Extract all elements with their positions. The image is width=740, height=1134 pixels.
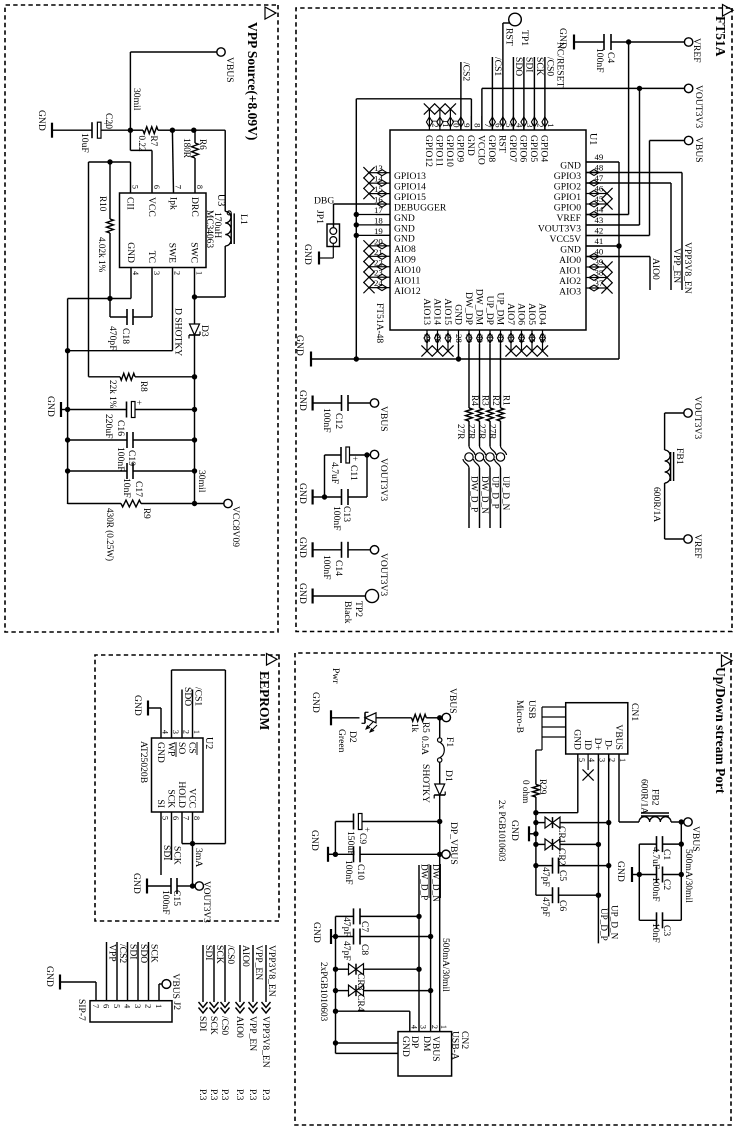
U2 pin 8 VCC <box>186 788 201 820</box>
U1 pin 18 GND (bottom) <box>374 215 415 234</box>
svg-text:GPIO2: GPIO2 <box>554 181 581 192</box>
U3 pin 8 DRC <box>189 185 204 217</box>
svg-text:GPIO1: GPIO1 <box>554 192 581 203</box>
svg-text:DW_D_P: DW_D_P <box>419 864 429 900</box>
svg-text:P.3: P.3 <box>247 1089 258 1101</box>
svg-text:27R: 27R <box>456 424 466 440</box>
U1 pin 20 AIO8 (bottom) <box>363 236 416 255</box>
svg-text:100nF: 100nF <box>331 506 342 531</box>
svg-text:GND: GND <box>297 483 308 504</box>
svg-text:SCK: SCK <box>165 789 176 808</box>
U1 pin 4 GPIO7 (left) <box>507 116 524 162</box>
svg-text:27R: 27R <box>467 424 477 440</box>
U1 pin 40 AIO0 (top) <box>559 247 604 266</box>
U1 pin 43 VOUT3V3 (top) <box>538 215 604 234</box>
U2 pin 2 SO <box>176 730 191 754</box>
section title FT51A <box>723 5 734 17</box>
svg-text:AIO10: AIO10 <box>394 265 421 276</box>
svg-text:17: 17 <box>374 205 383 215</box>
svg-text:VBUS: VBUS <box>170 973 181 999</box>
svg-text:R5: R5 <box>421 722 431 733</box>
U1 pin 15 GPIO15 (bottom) <box>363 184 426 203</box>
wire VCC8V09 output rail <box>192 335 207 506</box>
svg-text:3mA: 3mA <box>193 848 204 867</box>
U1 pin 7 VCCIO (left) <box>476 116 493 165</box>
wire U2 pin3 WP pullup loop <box>172 670 226 844</box>
diode D1 SHOTKY <box>420 764 454 824</box>
capacitor C15 100nF <box>147 878 193 915</box>
svg-text:TC: TC <box>146 251 157 263</box>
svg-text:VCC8V09: VCC8V09 <box>230 506 241 547</box>
capacitor C2 100nF <box>637 867 682 902</box>
section frame Up/Down stream Port <box>295 653 731 1125</box>
net DW_D_N wire to CN2 pin2 <box>428 864 441 1032</box>
svg-text:C11: C11 <box>348 465 359 481</box>
ground for C13 <box>297 483 325 505</box>
svg-text:GND: GND <box>297 583 308 604</box>
U1 pin 31 UP_DP (right) <box>484 296 496 344</box>
svg-text:P.3: P.3 <box>219 1089 230 1101</box>
capacitor C12 100nF <box>313 395 348 433</box>
svg-text:430R (0.25W): 430R (0.25W) <box>105 508 115 561</box>
ferrite bead FB2 600R/1A on VBUS <box>619 754 681 822</box>
U1 pin 19 GND (bottom) <box>374 226 415 245</box>
capacitor C9 150uF polarized <box>335 814 439 856</box>
crossover symbol on UP_D_N <box>495 446 512 528</box>
svg-text:AIO0: AIO0 <box>650 258 661 280</box>
svg-text:GPIO9: GPIO9 <box>455 135 466 162</box>
node SWC junction U3 pin1 <box>192 268 197 325</box>
svg-text:DP_VBUS: DP_VBUS <box>448 822 459 865</box>
svg-text:AIO14: AIO14 <box>431 298 442 325</box>
U3 pin 7 Ipk <box>167 185 182 210</box>
svg-text:SHOTKY: SHOTKY <box>420 764 431 803</box>
svg-text:USB: USB <box>526 700 537 719</box>
svg-text:+: + <box>101 121 111 126</box>
svg-text:GND: GND <box>44 966 55 987</box>
U1 pin 33 AIO7 (right) <box>505 303 517 356</box>
svg-text:7: 7 <box>483 123 493 128</box>
port VBUS to U1 VCC5V pin42 <box>586 136 704 235</box>
svg-text:AIO2: AIO2 <box>559 276 581 287</box>
resistor R7 0.22 current sense <box>130 127 172 152</box>
svg-text:2: 2 <box>173 271 182 275</box>
U1 pin 25 AIO13 (right) <box>421 298 433 356</box>
svg-text:100nF: 100nF <box>115 447 126 472</box>
port VBUS input upstream <box>437 688 458 722</box>
ground for TP2 <box>297 583 313 604</box>
svg-text:U1: U1 <box>587 133 598 145</box>
wire U3 pin6 VCC to VBUS node <box>130 130 152 193</box>
net /CS2 wire to U1 pin9 <box>460 62 471 130</box>
svg-text:4.02k 1%: 4.02k 1% <box>97 237 107 273</box>
svg-text:22k 1%: 22k 1% <box>108 380 118 409</box>
svg-text:VPP_EN: VPP_EN <box>253 945 264 980</box>
svg-text:C12: C12 <box>333 413 344 429</box>
svg-text:GND: GND <box>45 396 56 417</box>
svg-text:C4: C4 <box>605 52 616 63</box>
svg-text:100nF: 100nF <box>343 860 354 885</box>
capacitor C11 4.7uF polarized <box>325 447 368 484</box>
svg-text:GPIO5: GPIO5 <box>528 135 539 162</box>
U1 pin 34 AIO6 (right) <box>515 303 527 356</box>
svg-text:R3: R3 <box>481 395 491 406</box>
U1 pin 21 AIO9 (bottom) <box>363 247 416 266</box>
off-page connector SDI to P.3 <box>197 945 214 1101</box>
U2 pin 5 SI <box>155 799 170 820</box>
svg-text:VBUS: VBUS <box>447 688 458 714</box>
svg-text:CR4: CR4 <box>355 994 366 1012</box>
svg-text:F1: F1 <box>444 737 455 747</box>
U1 pin 23 AIO11 (bottom) <box>363 268 420 287</box>
resistor R2 27R on UP_D_P <box>477 344 501 446</box>
svg-text:RST: RST <box>497 135 508 153</box>
port VBUS at C12 <box>348 399 389 432</box>
U1 pin 17 GND (bottom) <box>374 205 415 224</box>
svg-text:GND: GND <box>509 820 520 841</box>
svg-text:RST: RST <box>504 28 515 46</box>
svg-text:C16: C16 <box>115 420 126 436</box>
off-page connector SCK to P.3 <box>208 945 225 1101</box>
svg-text:AIO4: AIO4 <box>536 303 547 325</box>
svg-text:DM: DM <box>421 1036 432 1052</box>
off-page connector AIO0 to P.3 <box>234 945 251 1101</box>
ground symbol for U1 GND rail <box>294 335 311 367</box>
svg-text:AIO13: AIO13 <box>421 298 432 325</box>
svg-text:GPIO11: GPIO11 <box>434 135 445 167</box>
svg-text:100nF: 100nF <box>160 890 171 915</box>
svg-text:R29: R29 <box>538 779 548 795</box>
svg-text:P.3: P.3 <box>197 1089 208 1101</box>
svg-text:GPIO13: GPIO13 <box>394 171 426 182</box>
resistor R3 27R on DW_D_N <box>467 344 491 446</box>
svg-text:VPP3V8_EN: VPP3V8_EN <box>260 1016 271 1068</box>
ground symbol VPP rail <box>45 396 68 417</box>
svg-text:5: 5 <box>131 185 140 189</box>
svg-text:6: 6 <box>152 185 161 189</box>
svg-text:VOUT3V3: VOUT3V3 <box>693 85 704 128</box>
wire VBUS rail top to L1 <box>194 130 225 211</box>
svg-text:3: 3 <box>171 730 180 734</box>
svg-text:GPIO3: GPIO3 <box>554 171 581 182</box>
U1 pin 1 GPIO4 (left) <box>539 116 556 162</box>
svg-text:2: 2 <box>144 1004 154 1008</box>
svg-text:100nF: 100nF <box>321 555 332 580</box>
section title Up/Down stream Port <box>722 655 733 667</box>
svg-text:AIO0: AIO0 <box>234 1016 245 1038</box>
U1 pin 27 AIO15 (right) <box>442 298 454 356</box>
svg-text:VPP: VPP <box>106 944 117 962</box>
CN1 pin 2 D- <box>603 740 617 762</box>
svg-text:C8: C8 <box>359 944 370 955</box>
svg-text:TP1: TP1 <box>519 30 530 46</box>
U1 pin 28 GND (right) <box>452 304 464 344</box>
svg-text:220uF: 220uF <box>103 414 114 439</box>
U1 pin 8 GND (left) <box>465 116 482 156</box>
CN2 pin 2 DM <box>421 1025 439 1052</box>
svg-text:R6: R6 <box>198 139 208 150</box>
svg-text:DEBUGGER: DEBUGGER <box>394 202 447 213</box>
svg-text:AIO0: AIO0 <box>240 945 251 967</box>
svg-text:R10: R10 <box>98 196 108 212</box>
svg-text:41: 41 <box>595 236 604 246</box>
LED D2 Green Pwr <box>330 668 377 753</box>
svg-text:DW_D_N: DW_D_N <box>431 864 441 902</box>
svg-text:VOUT3V3: VOUT3V3 <box>378 553 389 596</box>
U1 pin 6 GPIO8 (left) <box>486 116 503 162</box>
svg-text:GND: GND <box>155 742 166 763</box>
resistor R1 27R on UP_D_N <box>488 344 512 446</box>
section title EEPROM <box>267 654 278 666</box>
svg-text:NC/RESET: NC/RESET <box>555 42 566 87</box>
wire feedback to U3 pin5 CII <box>89 162 131 377</box>
svg-text:GND: GND <box>297 537 308 558</box>
net DBG wire from U1 pin16 DEBUGGER <box>314 196 376 228</box>
wire CN1 shield stubs <box>536 707 566 750</box>
svg-text:DW_DM: DW_DM <box>473 289 484 326</box>
svg-text:19: 19 <box>374 226 383 236</box>
svg-text:47pF: 47pF <box>341 917 352 937</box>
port VOUT3V3 for EEPROM <box>193 881 212 923</box>
svg-text:SDO: SDO <box>513 57 524 76</box>
CN1 pin 5 GND <box>572 729 586 762</box>
svg-text:C17: C17 <box>133 481 144 497</box>
svg-text:P.3: P.3 <box>260 1089 271 1101</box>
svg-text:UP_D_P: UP_D_P <box>491 476 501 509</box>
svg-text:3: 3 <box>419 1025 428 1029</box>
U1 pin 26 AIO14 (right) <box>431 298 443 356</box>
svg-text:2: 2 <box>430 1025 439 1029</box>
svg-text:VBUS: VBUS <box>690 826 701 852</box>
U1 pin 14 GPIO14 (bottom) <box>363 174 426 193</box>
svg-text:4: 4 <box>131 271 140 275</box>
net VPP_EN wire from U1 pin47 <box>586 183 682 290</box>
svg-text:GND: GND <box>560 160 581 171</box>
resistor R9 430R 0.25W load <box>68 500 195 561</box>
U1 pin 35 AIO5 (right) <box>526 303 538 356</box>
ground for C9 C10 <box>309 830 335 862</box>
fuse F1 0.5A <box>419 718 455 784</box>
svg-text:GPIO10: GPIO10 <box>444 135 455 167</box>
net SCK wire to U2 pin6 <box>172 812 183 865</box>
svg-text:18: 18 <box>374 215 383 225</box>
svg-text:GND: GND <box>294 335 305 356</box>
svg-text:VBUS: VBUS <box>224 57 235 83</box>
svg-text:/CS1: /CS1 <box>492 57 503 76</box>
crossover symbol on UP_D_P <box>484 446 501 528</box>
connector CN1 USB Micro-B body <box>566 703 640 754</box>
svg-text:C2: C2 <box>661 879 672 890</box>
net SDO wire to U1 pin4 <box>513 57 524 130</box>
svg-text:D1: D1 <box>443 770 454 782</box>
svg-text:AIO3: AIO3 <box>559 286 581 297</box>
crossover symbol on DW_D_N <box>474 446 491 528</box>
CN2 pin 1 VBUS <box>430 1025 448 1062</box>
port VCC8V09 <box>195 499 242 547</box>
svg-text:2x PGB1010603: 2x PGB1010603 <box>497 800 507 862</box>
ground for JP1 <box>302 244 333 265</box>
wire CN2 pin4 GND <box>336 1011 410 1031</box>
svg-text:SDO: SDO <box>138 944 149 963</box>
svg-text:2xPGB1010603: 2xPGB1010603 <box>319 962 329 1022</box>
port VBUS downstream <box>679 818 701 852</box>
resistor R29 0 ohm <box>521 750 548 813</box>
svg-text:VCC: VCC <box>146 197 157 217</box>
svg-text:Pwr: Pwr <box>330 668 341 684</box>
svg-text:43: 43 <box>595 215 604 225</box>
ground on shield rail <box>509 820 536 841</box>
svg-text:Green: Green <box>336 729 347 753</box>
section frame VPP Source <box>5 5 278 632</box>
svg-text:GND: GND <box>452 304 463 325</box>
IC U1 FT51A-48 body <box>390 130 586 330</box>
svg-text:GND: GND <box>125 242 136 263</box>
capacitor C14 100nF <box>313 542 348 580</box>
U1 pin 29 DW_DP (right) <box>463 292 475 344</box>
capacitor C6 47pF <box>536 887 599 917</box>
U1 pin 3 GPIO6 (left) <box>518 116 535 162</box>
off-page connector VPP_EN to P.3 <box>247 945 264 1101</box>
U1 pin 42 VCC5V (top) <box>550 226 604 245</box>
CN1 pin 3 D+ <box>592 738 606 762</box>
wire CN1 pin5 GND to shield rail <box>533 754 578 815</box>
svg-text:P.3: P.3 <box>208 1089 219 1101</box>
svg-text:AIO15: AIO15 <box>442 298 453 325</box>
ground for U2 pin4 <box>132 695 161 738</box>
port VOUT3V3 at C14 <box>348 546 389 597</box>
CN1 pin 4 ID <box>582 740 596 762</box>
wire U1 pin8 GND and pins 17-19 GND rail <box>354 99 472 362</box>
wire U3 pin4 GND drop <box>68 268 131 302</box>
wire U3 pin2 SWE to ground rail <box>68 268 173 351</box>
wire L1 to SWC node <box>195 246 226 297</box>
U1 pin 11 GPIO11 (left) <box>434 103 451 166</box>
svg-text:SDI: SDI <box>197 1016 208 1031</box>
port VOUT3V3 to U1 VCCIO pin7 and pin43 <box>482 84 704 225</box>
svg-text:AIO8: AIO8 <box>394 244 416 255</box>
svg-text:SWC: SWC <box>188 242 199 263</box>
svg-text:CN1: CN1 <box>629 703 640 721</box>
svg-text:/CS0: /CS0 <box>544 57 555 76</box>
svg-text:JP1: JP1 <box>314 210 325 224</box>
svg-text:GPIO7: GPIO7 <box>507 135 518 162</box>
svg-text:VPP_EN: VPP_EN <box>671 248 682 283</box>
net UP_D_N wire from CN1 pin2 <box>606 754 620 940</box>
capacitor C5 47pF <box>536 858 609 887</box>
ground for C12 <box>297 390 313 411</box>
U1 pin 5 RST (left) <box>497 116 514 153</box>
svg-text:1: 1 <box>195 271 204 275</box>
section frame EEPROM <box>95 655 279 921</box>
svg-text:SDI: SDI <box>127 944 138 959</box>
svg-text:GND: GND <box>394 223 415 234</box>
svg-text:500mA/30mil: 500mA/30mil <box>683 849 694 903</box>
ground for C2 <box>615 861 639 882</box>
diode D3 D_SHOTKY <box>173 308 211 356</box>
wire VBUS cap rail <box>679 822 694 920</box>
TVS CR1 PGB1010603 <box>536 817 609 844</box>
svg-text:VCC: VCC <box>186 788 197 808</box>
svg-text:GND: GND <box>615 861 626 882</box>
capacitor C1 4.7uF <box>639 836 681 869</box>
capacitor C3 10nF <box>639 912 681 942</box>
net VPP wire to J2 pin 6 <box>106 942 117 1001</box>
svg-text:GND: GND <box>302 244 313 265</box>
svg-text:GND: GND <box>560 244 581 255</box>
svg-text:C6: C6 <box>557 900 568 911</box>
connector J2 SIP-7 body <box>76 999 182 1022</box>
svg-text:GND: GND <box>131 873 142 894</box>
wire CN2 shield stubs <box>336 1043 399 1053</box>
svg-text:VBUS: VBUS <box>693 137 704 163</box>
svg-text:SDI: SDI <box>203 945 214 960</box>
svg-text:GND: GND <box>465 135 476 156</box>
svg-text:C1: C1 <box>661 849 672 860</box>
svg-text:D3: D3 <box>199 325 210 337</box>
svg-text:VOUT3V3: VOUT3V3 <box>538 223 581 234</box>
U1 pin 24 AIO12 (bottom) <box>363 278 420 297</box>
svg-text:SI: SI <box>155 799 166 808</box>
svg-text:4: 4 <box>161 730 170 734</box>
net SDI wire to U2 pin5 <box>161 812 172 875</box>
svg-text:0.22: 0.22 <box>137 136 147 152</box>
net /CS1 wire to U2 pin1 <box>193 687 204 738</box>
svg-text:GPIO15: GPIO15 <box>394 192 426 203</box>
svg-text:500mA/30mil: 500mA/30mil <box>440 938 451 992</box>
svg-text:FB2: FB2 <box>650 789 661 806</box>
svg-text:VPP3V8_EN: VPP3V8_EN <box>682 242 693 294</box>
svg-text:D SHOTKY: D SHOTKY <box>173 308 184 356</box>
svg-text:600R/1A: 600R/1A <box>639 779 650 814</box>
svg-text:VOUT3V3: VOUT3V3 <box>201 881 211 923</box>
wire VPP ground rail <box>65 299 70 505</box>
svg-text:/CS1: /CS1 <box>193 687 204 706</box>
resistor R8 22k 1% feedback <box>89 373 195 408</box>
svg-text:6: 6 <box>102 1004 112 1009</box>
U3 pin 2 SWE <box>166 243 181 275</box>
U1 pin 9 GPIO9 (left) <box>455 116 472 162</box>
svg-text:27R: 27R <box>488 424 498 440</box>
svg-text:27R: 27R <box>477 424 487 440</box>
U2 pin 1 CS <box>186 730 201 755</box>
svg-text:SCK: SCK <box>534 57 545 76</box>
svg-text:3: 3 <box>133 1004 143 1008</box>
label USB Micro-B <box>514 700 537 733</box>
IC U3 MC34063 body <box>120 193 227 268</box>
U1 pin 44 VREF (top) <box>556 205 603 224</box>
svg-text:SIP-7: SIP-7 <box>76 999 87 1021</box>
svg-text:GND: GND <box>394 234 415 245</box>
U1 pin 38 AIO2 (top) <box>559 268 612 287</box>
U3 pin 3 TC <box>146 251 161 275</box>
svg-text:150uF: 150uF <box>345 831 356 856</box>
svg-text:Ipk: Ipk <box>167 197 178 210</box>
wire VREF rail to U1 pin44 <box>586 39 631 214</box>
capacitor C17 10nF <box>68 463 195 498</box>
U1 pin 45 GPIO0 (top) <box>554 194 613 213</box>
U1 pin 41 GND (top) <box>560 236 603 255</box>
svg-text:1: 1 <box>439 1025 448 1029</box>
wire CN2 ground rail <box>333 916 338 1053</box>
svg-text:SCK: SCK <box>208 1016 219 1035</box>
svg-text:GPIO0: GPIO0 <box>554 202 581 213</box>
svg-text:6: 6 <box>171 816 180 820</box>
svg-text:GND: GND <box>400 1036 411 1057</box>
svg-text:+: + <box>350 456 360 461</box>
svg-text:AIO5: AIO5 <box>526 303 537 325</box>
svg-text:1k: 1k <box>410 723 420 733</box>
svg-text:C10: C10 <box>355 864 366 880</box>
